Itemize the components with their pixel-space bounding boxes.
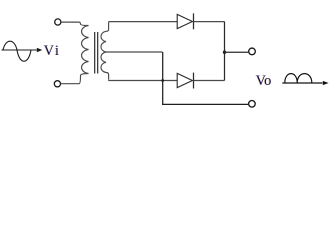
wire diode D2 cathode to right vertical	[194, 80, 225, 82]
transformer core line left	[94, 32, 96, 74]
wire secondary top tap to diode D1 anode	[109, 21, 177, 24]
transformer core line right	[97, 32, 99, 74]
wire secondary bottom tap to diode D2 anode	[109, 79, 177, 82]
terminal top-right	[249, 48, 256, 55]
transformer T1 primary winding	[79, 22, 89, 84]
wire bottom-left terminal to primary	[61, 83, 79, 85]
terminal bottom-left	[54, 81, 60, 87]
arrowhead of output waveform arrow	[323, 81, 329, 85]
terminal bottom-right	[249, 101, 256, 108]
wire secondary center tap	[106, 51, 162, 53]
wire center tap vertical down	[162, 52, 164, 104]
terminal top-left	[55, 19, 61, 25]
output waveform humps	[285, 74, 312, 83]
svg-text:Vi: Vi	[44, 43, 61, 59]
ac source sine symbol	[2, 41, 37, 61]
wire output node to top-right terminal	[225, 51, 249, 53]
wire top-left terminal to primary	[61, 21, 79, 23]
diode D2	[177, 73, 193, 89]
diode D1	[177, 13, 193, 29]
junction dot at output node	[223, 51, 226, 54]
wire right vertical joining cathodes	[224, 22, 226, 81]
wire bottom rail to output terminal	[162, 103, 248, 105]
arrowhead of source arrow	[37, 48, 43, 52]
transformer T1 secondary winding	[101, 22, 109, 79]
crossing dot at center-tap vertical and D2 wire	[161, 79, 164, 82]
svg-text:Vo: Vo	[256, 73, 272, 89]
output waveform symbol axis with arrow	[282, 82, 322, 84]
wire diode D1 cathode to right vertical	[194, 21, 225, 23]
